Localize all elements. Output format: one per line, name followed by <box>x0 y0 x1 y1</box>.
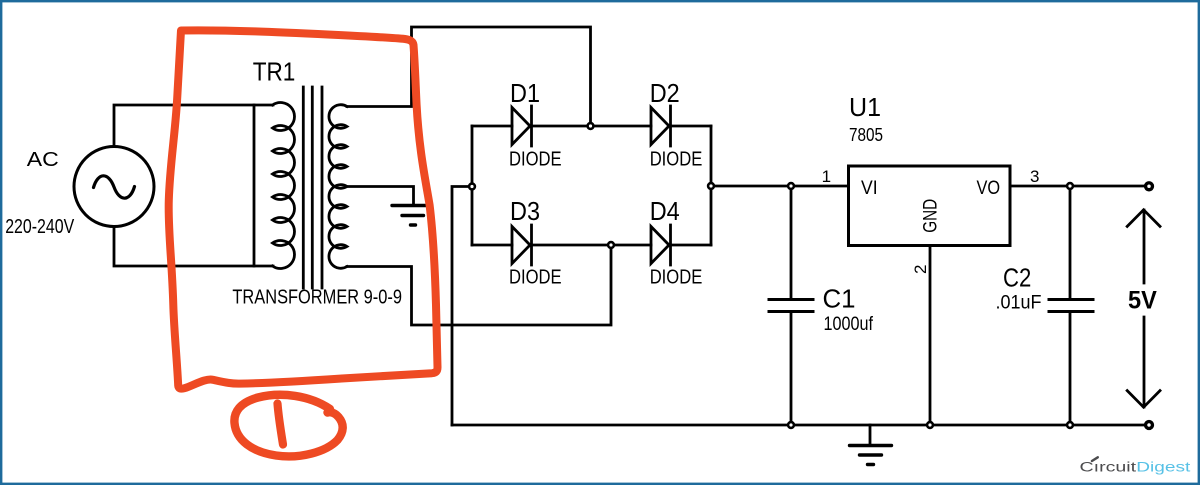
wire secondary top lead to top rail <box>347 27 591 126</box>
output terminal ground <box>1146 422 1153 429</box>
svg-text:TRANSFORMER 9-0-9: TRANSFORMER 9-0-9 <box>232 286 402 308</box>
diode D2 <box>651 106 671 146</box>
wire bridge left column <box>471 126 474 245</box>
diode D1 <box>512 106 532 146</box>
wire bridge top row <box>472 125 711 128</box>
ground (transformer center tap) <box>392 206 427 226</box>
wire AC top lead <box>114 105 273 147</box>
transformer TR1 primary winding <box>273 103 295 269</box>
transformer TR1 primary side bar <box>253 105 256 266</box>
svg-text:D3: D3 <box>510 196 540 226</box>
annotation circled 1 <box>234 395 342 457</box>
AC source circle <box>74 147 154 227</box>
wire bottom rail <box>452 424 1149 427</box>
svg-text:DIODE: DIODE <box>509 148 562 170</box>
svg-text:.01uF: .01uF <box>996 292 1042 313</box>
svg-text:VO: VO <box>977 178 1001 199</box>
wire bridge right node to U1 VI <box>711 185 849 188</box>
node junction bridge right <box>708 183 714 189</box>
svg-text:DIODE: DIODE <box>509 266 562 288</box>
transformer TR1 core <box>303 87 322 288</box>
capacitor C2 plates <box>1049 300 1093 312</box>
wire secondary bottom lead <box>347 245 611 325</box>
node junction bridge left <box>469 184 475 190</box>
svg-text:U1: U1 <box>849 92 881 122</box>
ground (main rail) <box>869 425 872 445</box>
svg-text:VI: VI <box>861 178 878 199</box>
node junction C2 bottom <box>1067 422 1073 428</box>
node junction C1 top <box>788 183 794 189</box>
wire U1 GND pin 2 <box>929 246 932 426</box>
wire U1 VO to output terminal <box>1010 185 1146 188</box>
wire bridge bottom row <box>472 244 711 247</box>
node junction C2 top <box>1067 183 1073 189</box>
AC sine symbol <box>94 176 135 198</box>
node junction C1 bottom <box>788 422 794 428</box>
node junction top bridge <box>588 123 594 129</box>
svg-text:7805: 7805 <box>849 125 883 145</box>
transformer TR1 secondary winding <box>329 105 347 269</box>
svg-text:TR1: TR1 <box>253 57 296 87</box>
svg-text:2: 2 <box>911 265 930 274</box>
annotation digit 1 stroke <box>278 404 284 445</box>
diode D3 <box>512 225 532 265</box>
node junction GND rail <box>927 422 933 428</box>
annotation marker highlight around transformer <box>169 30 438 388</box>
5V arrow <box>1127 210 1160 407</box>
svg-text:C2: C2 <box>1003 262 1031 292</box>
output terminal VO <box>1146 183 1153 190</box>
wire secondary center tap <box>347 187 414 206</box>
svg-text:D4: D4 <box>650 196 680 226</box>
svg-text:D2: D2 <box>650 78 680 108</box>
capacitor C1 plates <box>769 300 813 312</box>
svg-text:GND: GND <box>921 199 942 233</box>
svg-text:C1: C1 <box>823 283 856 313</box>
svg-text:1000uf: 1000uf <box>824 314 874 335</box>
svg-text:3: 3 <box>1030 167 1039 186</box>
wire bridge left node to down rail <box>452 187 472 426</box>
diode D4 <box>651 225 671 265</box>
svg-text:220-240V: 220-240V <box>5 216 75 238</box>
svg-text:AC: AC <box>27 149 59 171</box>
svg-text:1: 1 <box>822 167 831 186</box>
wire AC bottom lead <box>114 227 273 267</box>
node junction bottom bridge <box>608 242 614 248</box>
svg-text:DIODE: DIODE <box>650 148 703 170</box>
voltage regulator U1 7805 box <box>849 166 1011 246</box>
svg-text:5V: 5V <box>1128 287 1157 315</box>
wire C1 leads <box>790 186 793 425</box>
svg-text:Cırcuit: Cırcuit <box>1080 460 1137 476</box>
svg-text:DIODE: DIODE <box>650 266 703 288</box>
wire C2 leads <box>1069 186 1072 425</box>
svg-text:Digest: Digest <box>1136 460 1190 476</box>
svg-text:D1: D1 <box>510 78 540 108</box>
wire bridge right column <box>710 126 713 245</box>
